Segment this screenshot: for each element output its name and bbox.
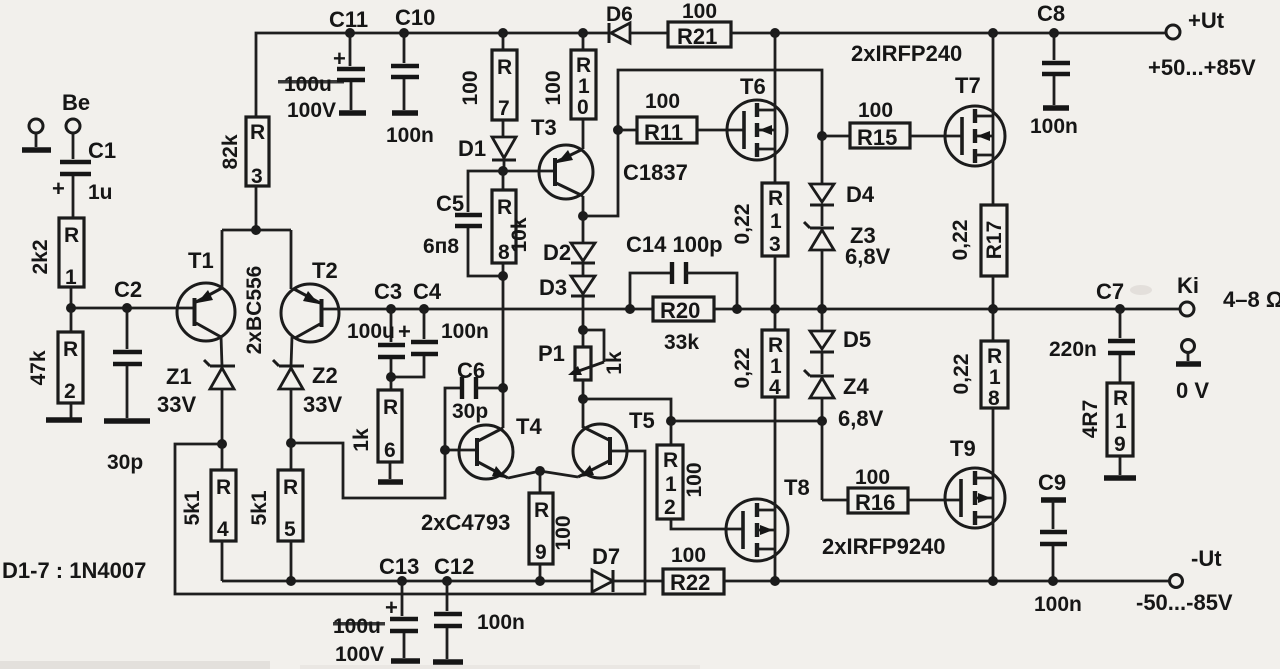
svg-text:100n: 100n (441, 320, 489, 343)
svg-text:10k: 10k (508, 217, 531, 252)
capacitor C11 (333, 33, 366, 113)
svg-text:100u: 100u (347, 320, 395, 343)
svg-text:T1: T1 (188, 248, 214, 273)
svg-text:-Ut: -Ut (1191, 546, 1222, 571)
svg-text:R: R (497, 196, 512, 219)
svg-text:R: R (768, 187, 783, 210)
svg-text:100: 100 (858, 99, 893, 122)
resistor R11 (618, 117, 744, 145)
junction C3 (386, 304, 396, 314)
svg-text:7: 7 (498, 97, 510, 120)
wire R8 node down to T4 collector (502, 309, 505, 428)
diode D7 (592, 570, 663, 592)
svg-text:0,22: 0,22 (731, 204, 754, 245)
svg-text:R22: R22 (670, 570, 710, 595)
svg-text:1: 1 (65, 266, 77, 289)
svg-text:+: + (333, 46, 346, 71)
terminal input ground (22, 119, 51, 150)
capacitor C3 (378, 309, 411, 377)
capacitor C8 (1042, 33, 1070, 108)
svg-text:R: R (534, 499, 549, 522)
terminal -Ut (1170, 575, 1183, 588)
svg-text:+: + (385, 595, 398, 620)
svg-text:T9: T9 (950, 436, 976, 461)
svg-text:Be: Be (62, 90, 90, 115)
svg-text:30p: 30p (452, 400, 488, 423)
capacitor C1 (52, 133, 91, 218)
junction T4/T5 emitters / R9 (535, 466, 545, 476)
svg-text:82k: 82k (219, 134, 242, 169)
junction R13/R14 output (770, 304, 780, 314)
wire T5 collector node to R12/Z4 (583, 399, 671, 421)
mosfet T8 (726, 499, 788, 581)
wire Z4 node down to R16 (821, 421, 824, 500)
junction top rail / T7 drain (988, 28, 998, 38)
svg-text:0 V: 0 V (1176, 378, 1209, 403)
svg-text:33V: 33V (303, 392, 342, 417)
wire +Ut top rail left segment (256, 33, 609, 117)
resistor R20 (653, 297, 714, 321)
svg-text:33k: 33k (664, 331, 699, 354)
terminal Be input (66, 119, 80, 133)
svg-text:30p: 30p (107, 451, 143, 474)
junction C9 (1048, 576, 1058, 586)
svg-text:C13: C13 (379, 554, 419, 579)
svg-text:D1-7 : 1N4007: D1-7 : 1N4007 (2, 558, 146, 583)
wire T3 base (503, 170, 554, 173)
svg-text:1k: 1k (603, 351, 626, 375)
resistor R17 (981, 205, 1007, 309)
svg-text:R: R (768, 334, 783, 357)
svg-text:1: 1 (770, 355, 782, 378)
capacitor C2 (104, 308, 150, 421)
resistor R21 (668, 22, 731, 47)
svg-text:100u: 100u (333, 615, 381, 638)
junction Z2/R5 node (286, 438, 296, 448)
svg-text:9: 9 (535, 541, 547, 564)
svg-text:T6: T6 (740, 74, 766, 99)
svg-text:Z1: Z1 (166, 364, 192, 389)
svg-text:1: 1 (665, 473, 677, 496)
wire D6 to R21 (630, 32, 668, 35)
svg-text:5: 5 (284, 518, 296, 541)
resistor R1 (59, 218, 84, 308)
capacitor C5 (455, 171, 503, 276)
svg-text:1: 1 (989, 366, 1001, 389)
svg-text:T2: T2 (312, 258, 338, 283)
svg-text:4: 4 (769, 376, 781, 399)
junction R9 bottom (535, 576, 545, 586)
svg-text:R16: R16 (855, 490, 895, 515)
junction top rail / R7 (498, 28, 508, 38)
wire feedback/output mid line (345, 308, 1180, 311)
svg-text:T8: T8 (784, 475, 810, 500)
resistor R13 (762, 183, 788, 309)
svg-text:T7: T7 (955, 73, 981, 98)
junction top rail / C11 (345, 28, 355, 38)
svg-text:C10: C10 (395, 5, 435, 30)
mosfet T7 (945, 33, 1005, 205)
svg-text:100: 100 (459, 70, 482, 105)
capacitor C12 (433, 581, 463, 662)
svg-text:T5: T5 (629, 408, 655, 433)
svg-text:C6: C6 (457, 358, 485, 383)
terminal Ki (1180, 302, 1194, 316)
svg-text:Ki: Ki (1177, 273, 1199, 298)
svg-text:+: + (398, 319, 411, 344)
svg-text:100n: 100n (477, 611, 525, 634)
wire Z2 node to T4 base (291, 443, 475, 498)
svg-text:9: 9 (1114, 433, 1126, 456)
wire negative rail (775, 580, 1169, 583)
junction C14 right (732, 304, 742, 314)
svg-text:100: 100 (683, 462, 706, 497)
diode D4 (810, 136, 834, 226)
junction C3/C4/R6 (386, 372, 396, 382)
svg-text:1k: 1k (350, 428, 373, 452)
transistor T2 (281, 230, 345, 366)
junction R11 left node (613, 125, 623, 135)
svg-text:D1: D1 (458, 136, 486, 161)
wire R12 node to Z4 node (671, 420, 822, 423)
svg-text:100V: 100V (335, 643, 384, 666)
svg-text:R17: R17 (983, 221, 1006, 260)
resistor R14 (762, 309, 788, 500)
junction T8 source (770, 576, 780, 586)
svg-text:R: R (576, 54, 591, 77)
svg-text:4–8 Ω: 4–8 Ω (1223, 287, 1280, 312)
svg-text:D5: D5 (843, 327, 871, 352)
potentiometer P1 (568, 330, 604, 399)
zener Z3 (804, 222, 834, 309)
svg-text:0,22: 0,22 (731, 348, 754, 389)
junction R17/R18 output node (988, 304, 998, 314)
capacitor C9 (1040, 500, 1067, 581)
transistor T3 (539, 119, 593, 216)
svg-text:C4: C4 (413, 279, 442, 304)
svg-text:R: R (383, 396, 398, 419)
junction C12 (442, 576, 452, 586)
junction Z1/R4 node (217, 439, 227, 449)
svg-text:100: 100 (855, 466, 890, 489)
svg-text:2k2: 2k2 (29, 239, 52, 274)
svg-text:C11: C11 (329, 7, 368, 32)
junction top rail / C8 (1049, 28, 1059, 38)
svg-text:D3: D3 (539, 275, 567, 300)
junction R12 top (666, 416, 676, 426)
svg-text:5k1: 5k1 (248, 490, 271, 525)
junction Z4 bottom (817, 416, 827, 426)
svg-text:R15: R15 (857, 125, 897, 150)
svg-text:1u: 1u (88, 181, 113, 204)
capacitor C4 (391, 309, 438, 377)
junction T3 collector node (578, 211, 588, 221)
svg-text:+Ut: +Ut (1188, 8, 1225, 33)
junction C14 left (625, 304, 635, 314)
resistor R6 (378, 377, 403, 482)
junction T5 collector node (578, 394, 588, 404)
transistor T4 (459, 425, 540, 479)
capacitor C13 (385, 581, 420, 661)
capacitor C7 (1108, 309, 1135, 383)
svg-text:100: 100 (645, 90, 680, 113)
junction tail / R3 (251, 225, 261, 235)
resistor R22 (663, 569, 775, 595)
svg-text:R21: R21 (677, 24, 717, 49)
capacitor C6 (445, 377, 503, 450)
junction P1 top (578, 325, 588, 335)
resistor R2 (46, 308, 83, 420)
resistor R15 (822, 123, 962, 150)
svg-text:T4: T4 (516, 414, 542, 439)
resistor R18 (981, 309, 1008, 468)
svg-text:100V: 100V (287, 99, 336, 122)
diode D5 (810, 309, 834, 374)
svg-text:R: R (63, 338, 78, 361)
svg-text:C2: C2 (114, 277, 142, 302)
svg-text:R: R (283, 476, 298, 499)
svg-text:33V: 33V (157, 392, 196, 417)
svg-text:2: 2 (664, 496, 676, 519)
junction R1/R2/input (66, 303, 76, 313)
transistor T1 (177, 230, 235, 366)
junction C7 (1115, 304, 1125, 314)
svg-text:3: 3 (251, 165, 263, 188)
svg-text:R: R (64, 224, 79, 247)
svg-text:Z2: Z2 (312, 363, 338, 388)
svg-text:C9: C9 (1038, 470, 1066, 495)
junction C4 (419, 304, 429, 314)
svg-text:T3: T3 (531, 115, 557, 140)
junction T4 base / C6 (440, 445, 450, 455)
svg-text:1: 1 (578, 75, 590, 98)
resistor R8 (492, 171, 516, 309)
svg-text:100u: 100u (284, 73, 332, 96)
svg-text:D6: D6 (606, 3, 633, 26)
svg-text:-50...-85V: -50...-85V (1136, 590, 1233, 615)
svg-text:6п8: 6п8 (423, 235, 459, 258)
svg-text:D4: D4 (846, 182, 875, 207)
svg-text:2xC4793: 2xC4793 (421, 510, 510, 535)
svg-text:+: + (52, 176, 65, 201)
svg-text:100n: 100n (386, 124, 434, 147)
resistor R12 (657, 421, 743, 529)
junction D1/R8/C5/T3 base (498, 166, 508, 176)
svg-text:R: R (216, 476, 231, 499)
resistor R4 (211, 444, 236, 581)
svg-text:4R7: 4R7 (1079, 400, 1102, 439)
svg-text:2xBC556: 2xBC556 (243, 266, 266, 355)
capacitor C10 (391, 33, 419, 113)
svg-text:P1: P1 (538, 341, 565, 366)
svg-text:R: R (987, 345, 1002, 368)
svg-text:100n: 100n (1030, 115, 1078, 138)
svg-text:2xIRFP240: 2xIRFP240 (851, 41, 962, 66)
zener Z2 (273, 360, 304, 443)
resistor R19 (1104, 383, 1136, 478)
svg-text:2xIRFP9240: 2xIRFP9240 (822, 534, 946, 559)
diode D3 (571, 276, 595, 330)
terminal +Ut (1166, 25, 1180, 39)
svg-text:0: 0 (577, 96, 589, 119)
wire Z1 node to T5 base (bottom loop) (175, 444, 645, 594)
wire R21 to +Ut terminal (731, 32, 1166, 35)
junction C13 (397, 576, 407, 586)
wire T3 collector to R11 node (583, 70, 822, 216)
svg-text:C1: C1 (88, 138, 116, 163)
terminal 0V (1176, 340, 1201, 365)
diode D1 (492, 137, 516, 171)
diode D2 (571, 216, 595, 276)
resistor R7 (492, 33, 517, 136)
wire tail T1/T2 emitters to R3 (222, 229, 291, 232)
svg-text:R20: R20 (660, 298, 700, 323)
svg-text:2: 2 (64, 380, 76, 403)
svg-text:100n: 100n (1034, 593, 1082, 616)
mosfet T6 (727, 33, 787, 183)
scan smudges (decorative) (0, 80, 1152, 669)
resistor R3 (246, 117, 269, 230)
svg-text:3: 3 (769, 233, 781, 256)
junction top rail / R10 (578, 28, 588, 38)
svg-text:D2: D2 (543, 240, 571, 265)
svg-text:C7: C7 (1096, 279, 1124, 304)
svg-text:C14 100p: C14 100p (626, 232, 723, 257)
svg-text:Z4: Z4 (843, 374, 869, 399)
svg-text:6,8V: 6,8V (845, 244, 891, 269)
svg-text:R11: R11 (644, 120, 683, 145)
zener Z4 (804, 370, 834, 421)
svg-text:1: 1 (770, 210, 782, 233)
junction top rail / T6 drain (770, 28, 780, 38)
junction T9 source (988, 576, 998, 586)
svg-text:100: 100 (552, 515, 575, 550)
svg-text:R: R (497, 56, 512, 79)
svg-text:C1837: C1837 (623, 160, 688, 185)
zener Z1 (204, 360, 235, 444)
svg-text:8: 8 (988, 387, 1000, 410)
resistor R10 (571, 33, 596, 119)
svg-text:0,22: 0,22 (950, 354, 973, 395)
svg-text:0,22: 0,22 (949, 220, 972, 261)
svg-text:100: 100 (671, 544, 706, 567)
capacitor C14 (630, 262, 737, 309)
transistor T5 (540, 399, 629, 478)
junction R15/D4 (817, 131, 827, 141)
junction C6/T4 collector (498, 383, 508, 393)
mosfet T9 (945, 468, 1005, 581)
svg-text:6: 6 (384, 439, 396, 462)
wire input node to T1 base (71, 307, 194, 310)
svg-text:C8: C8 (1037, 1, 1065, 26)
resistor R5 (278, 443, 303, 581)
resistor R9 (529, 471, 553, 581)
svg-text:R: R (1113, 387, 1128, 410)
svg-text:47k: 47k (27, 350, 50, 385)
wire lower drive rail (222, 580, 592, 583)
junction C2 (122, 303, 132, 313)
svg-text:100: 100 (682, 0, 717, 23)
svg-text:D7: D7 (592, 544, 620, 569)
resistor R16 (822, 488, 961, 515)
svg-text:R: R (250, 121, 265, 144)
svg-text:R: R (663, 449, 678, 472)
junction D5/Z3 output (817, 304, 827, 314)
svg-text:100: 100 (542, 70, 565, 105)
svg-text:4: 4 (217, 518, 229, 541)
svg-text:6,8V: 6,8V (838, 406, 884, 431)
diode D6 (609, 23, 630, 43)
svg-text:+50...+85V: +50...+85V (1148, 55, 1256, 80)
junction R8/C5 bottom (498, 271, 508, 281)
svg-text:220n: 220n (1049, 338, 1097, 361)
junction top rail / C10 (399, 28, 409, 38)
svg-text:1: 1 (1115, 410, 1127, 433)
svg-text:C5: C5 (436, 191, 464, 216)
svg-text:C12: C12 (434, 554, 474, 579)
junction R5 bottom (286, 576, 296, 586)
svg-text:5k1: 5k1 (181, 490, 204, 525)
svg-text:C3: C3 (374, 279, 402, 304)
